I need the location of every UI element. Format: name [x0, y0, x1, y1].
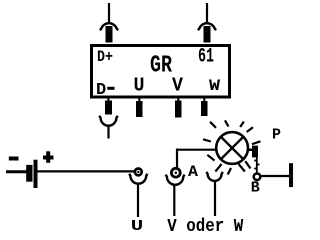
terminal post bar — [289, 163, 293, 187]
svg-text:GR: GR — [150, 53, 172, 80]
svg-text:V: V — [172, 75, 184, 97]
wire B to post — [261, 175, 290, 177]
ring terminal B — [254, 174, 261, 181]
wire down to U — [137, 185, 139, 218]
svg-text:V oder W: V oder W — [167, 217, 243, 237]
stub lamp to blade P — [248, 149, 253, 151]
svg-text:P: P — [272, 127, 281, 144]
wire down from open socket — [214, 182, 216, 217]
label D- — [96, 81, 115, 100]
svg-text:D+: D+ — [97, 48, 113, 66]
socket cup under D- — [99, 116, 118, 126]
label plus — [43, 151, 54, 163]
ring terminal A — [171, 168, 180, 177]
ring terminal at U — [135, 169, 142, 176]
battery negative plate — [26, 165, 32, 182]
wire to 61 connector — [206, 3, 208, 24]
svg-text:D: D — [96, 81, 106, 100]
connector socket cap at 61 — [198, 23, 216, 30]
blade terminal 61 — [204, 26, 211, 43]
connector socket cap at D+ — [100, 23, 118, 30]
wire battery left — [6, 170, 27, 173]
svg-text:A: A — [188, 163, 198, 181]
jagged lead from blade to B — [254, 157, 259, 173]
socket cup under terminal A — [166, 175, 185, 185]
open socket cup under lamp — [206, 172, 222, 181]
pin V — [175, 97, 182, 118]
wire corner down to A — [176, 149, 178, 167]
svg-text:W: W — [209, 77, 220, 95]
svg-text:U: U — [131, 218, 144, 235]
wire down from A — [173, 186, 175, 216]
regulator GR box — [92, 46, 230, 98]
battery positive plate — [34, 160, 38, 188]
svg-text:B: B — [251, 180, 260, 197]
pin D- — [105, 97, 112, 115]
svg-text:U: U — [134, 75, 145, 97]
wire to D+ connector — [108, 3, 110, 24]
svg-text:61: 61 — [198, 46, 214, 69]
lamp circle — [216, 132, 248, 164]
lamp rays — [203, 120, 261, 174]
pin U — [136, 97, 143, 117]
pin W — [201, 97, 208, 116]
socket cup under terminal U — [129, 174, 147, 184]
blade terminal P — [252, 146, 258, 158]
label minus — [9, 157, 19, 161]
blade terminal D+ — [106, 26, 113, 43]
wire below D- socket — [107, 126, 109, 139]
lamp cross — [221, 137, 243, 159]
wire battery to terminal U — [38, 170, 135, 172]
wire lamp to corner — [176, 149, 216, 151]
